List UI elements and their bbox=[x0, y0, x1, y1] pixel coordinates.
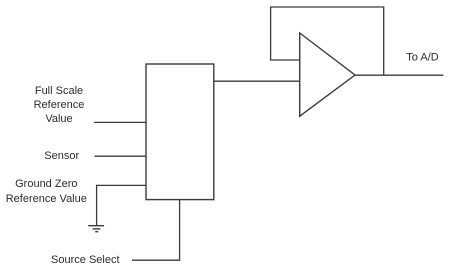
op-amp buffer bbox=[300, 33, 355, 116]
ground bbox=[88, 226, 104, 232]
node label: Full Scale Reference Value bbox=[34, 85, 85, 125]
svg-text:Reference Value: Reference Value bbox=[6, 193, 87, 205]
wire: full-scale reference input bbox=[94, 121, 146, 123]
svg-text:Source Select: Source Select bbox=[51, 254, 119, 266]
analog multiplexer block bbox=[146, 64, 214, 200]
svg-text:Sensor: Sensor bbox=[44, 150, 79, 162]
svg-text:To A/D: To A/D bbox=[406, 52, 438, 64]
wire: sensor input bbox=[95, 155, 147, 157]
svg-text:Ground Zero: Ground Zero bbox=[15, 178, 77, 190]
node label: Ground Zero Reference Value bbox=[6, 178, 87, 205]
wire: ground-zero reference input bbox=[97, 185, 146, 225]
svg-text:Full Scale: Full Scale bbox=[35, 85, 83, 97]
svg-text:Reference: Reference bbox=[34, 99, 85, 111]
wire: source select bbox=[132, 200, 180, 261]
wire: feedback loop from output to inverting input bbox=[271, 7, 384, 75]
wire: op-amp output to A/D bbox=[355, 74, 443, 76]
svg-text:Value: Value bbox=[45, 113, 72, 125]
wire: mux output to op-amp noninverting input bbox=[214, 80, 300, 82]
